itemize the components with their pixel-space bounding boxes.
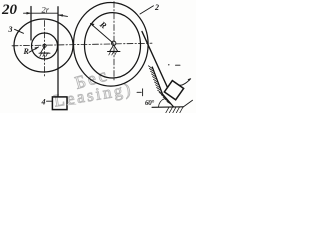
svg-text:3: 3 [8,25,13,34]
watermark lower "Leasing)" [53,79,134,110]
cord from pulley 3 to block 4 (also right extension line) [57,7,59,97]
svg-text:2: 2 [154,3,159,12]
line at bottom right corner [184,100,193,107]
leader to label 1 (arrow) [178,79,190,85]
faint mark right of block 4 [67,103,76,106]
svg-text:60°: 60° [145,99,154,107]
block 1 [164,81,183,100]
paper background [0,0,196,113]
svg-text:4: 4 [41,98,46,107]
dash-dot fragment right [168,64,169,65]
svg-text:R: R [23,47,30,56]
radius R arrow pulley 2 [91,24,114,44]
leader to label 3 [15,29,24,33]
pivot support pulley 2 [110,45,118,51]
pulley 3 outer circle [14,19,73,72]
watermark upper "Бес" [73,64,111,93]
radius R arrow pulley 3 [29,47,39,52]
dimension outside arrow left [24,12,31,14]
pivot support pulley 3 [41,47,49,54]
vertical centerline pulley 2 [113,2,115,81]
ground hatching [166,107,183,113]
tick mark left of angle [137,91,141,93]
axle pulley 2 [112,41,116,45]
angle arc 60 [159,99,165,107]
horizontal centerline through both pulleys [12,43,152,46]
svg-text:2r: 2r [42,5,50,15]
dimension outside arrow right [59,15,68,16]
pulley 2 outer circle [74,3,149,87]
dimension line 2r [31,12,58,14]
incline surface [152,67,173,107]
pulley 3 inner circle [32,33,58,59]
block 4 [52,97,67,110]
axle pulley 3 [43,44,46,47]
dimension 2r extension line left [30,7,32,41]
leader to label 2 [140,6,154,14]
leader to label 4 [47,100,53,102]
cord from pulley 2 to block 1 [142,32,168,88]
vertical centerline pulley 3 [44,21,46,78]
ground line at incline foot [152,106,184,109]
svg-text:20: 20 [1,2,18,18]
pulley 2 inner circle [85,13,141,78]
incline hatching [148,66,171,105]
